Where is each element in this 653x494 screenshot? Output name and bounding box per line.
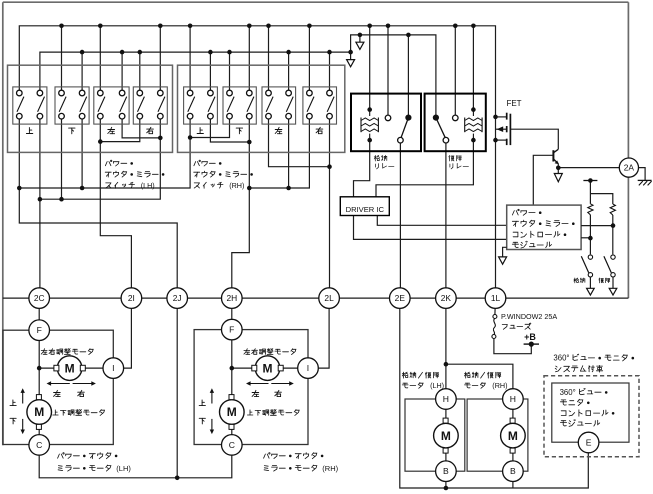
svg-text:2A: 2A xyxy=(624,163,635,173)
svg-text:M: M xyxy=(508,429,518,443)
svg-text:I: I xyxy=(307,363,309,373)
svg-text:(RH): (RH) xyxy=(322,464,338,473)
svg-text:F: F xyxy=(229,325,234,335)
svg-text:C: C xyxy=(36,440,42,450)
svg-text:2C: 2C xyxy=(34,293,45,303)
svg-text:H: H xyxy=(443,394,449,404)
svg-text:M: M xyxy=(441,429,451,443)
svg-text:FET: FET xyxy=(506,99,521,108)
svg-text:(LH): (LH) xyxy=(430,381,444,390)
svg-text:1L: 1L xyxy=(491,293,501,303)
svg-text:2H: 2H xyxy=(226,293,237,303)
svg-text:360°: 360° xyxy=(560,388,576,397)
svg-text:2I: 2I xyxy=(128,293,135,303)
svg-text:360°: 360° xyxy=(553,354,569,363)
svg-text:P.WINDOW2 25A: P.WINDOW2 25A xyxy=(501,312,557,321)
svg-text:M: M xyxy=(34,405,44,419)
svg-text:B: B xyxy=(443,466,449,476)
svg-text:2K: 2K xyxy=(441,293,452,303)
svg-text:M: M xyxy=(227,405,237,419)
svg-text:C: C xyxy=(229,440,235,450)
svg-text:(RH): (RH) xyxy=(492,381,507,390)
svg-text:F: F xyxy=(37,325,42,335)
svg-text:E: E xyxy=(586,438,592,448)
svg-text:2E: 2E xyxy=(395,293,406,303)
svg-text:M: M xyxy=(263,361,273,375)
svg-text:2L: 2L xyxy=(324,293,334,303)
svg-text:H: H xyxy=(510,394,516,404)
svg-text:M: M xyxy=(65,361,75,375)
svg-text:(LH): (LH) xyxy=(141,181,155,190)
svg-text:I: I xyxy=(112,363,114,373)
svg-text:(RH): (RH) xyxy=(229,181,244,190)
svg-text:+B: +B xyxy=(524,332,536,342)
svg-text:(LH): (LH) xyxy=(116,464,131,473)
svg-text:2J: 2J xyxy=(173,293,182,303)
svg-text:B: B xyxy=(510,466,516,476)
svg-text:DRIVER IC: DRIVER IC xyxy=(346,205,385,214)
